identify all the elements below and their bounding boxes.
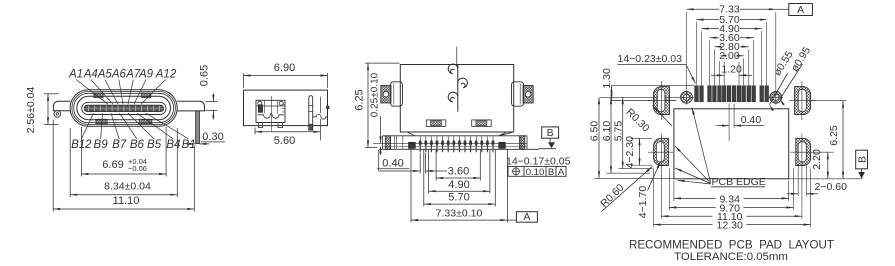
svg-text:0.10: 0.10 [526, 167, 545, 178]
hole centre reference line [600, 96, 680, 98]
datum B flag view3 [542, 127, 559, 138]
view 1: receptacle front view - outer shell stadium [70, 90, 177, 127]
left hook tip [54, 111, 61, 118]
datum A flag view3 [507, 219, 516, 221]
dimension 0.40 centre pads view4 [728, 104, 730, 142]
bottom dimension 11.10 [660, 172, 662, 219]
shell foot pad left (dark) [409, 142, 416, 148]
svg-text:2.20: 2.20 [811, 149, 823, 170]
svg-text:2.00: 2.00 [719, 50, 740, 62]
dimple right (hatched) [472, 120, 492, 127]
right solder hook arm [177, 101, 205, 111]
svg-text:2.56±0.04: 2.56±0.04 [25, 87, 37, 134]
left weld hatch [381, 85, 391, 103]
svg-text:5.70: 5.70 [448, 192, 469, 204]
row of 14 SMT leads with tails [419, 136, 421, 141]
svg-text:11.10: 11.10 [113, 195, 140, 207]
svg-text:1.20: 1.20 [721, 63, 742, 75]
fastening pad centre reference line [611, 100, 676, 102]
svg-text:1.30: 1.30 [601, 68, 613, 89]
contact ticks on tongue [88, 106, 90, 112]
svg-text:TOLERANCE:0.05mm: TOLERANCE:0.05mm [674, 251, 788, 263]
svg-text:A4: A4 [83, 69, 98, 81]
svg-text:0.30: 0.30 [202, 131, 223, 143]
PCB edge cutout rectangle [674, 109, 789, 179]
svg-text:B4: B4 [166, 139, 180, 151]
dimension 1.20 [723, 62, 725, 85]
side clip outline [256, 100, 285, 122]
right dimension 2.20 [827, 152, 829, 179]
band end verticals left [382, 136, 384, 150]
dimension 6.25 (height) [365, 62, 400, 64]
fastening pad lower-right [796, 138, 811, 165]
dimension 0.65 (hook tube height) [206, 101, 218, 103]
svg-text:B6: B6 [130, 139, 145, 151]
through hole right (Ø0.95/Ø0.55) [770, 91, 782, 103]
dimension 7.33±0.10 view3 [410, 150, 412, 223]
shell foot pad right (dark) [499, 142, 506, 148]
bottom dimension 9.70 [668, 169, 670, 211]
right weld bracket plate [512, 82, 524, 106]
svg-text:7.33±0.10: 7.33±0.10 [436, 207, 483, 219]
svg-text:A12: A12 [155, 69, 177, 81]
pad row top reference line [611, 85, 694, 87]
view 2: side view body rectangle [244, 90, 328, 126]
stacked dimension 7.33 with extension to datum A [686, 12, 688, 90]
svg-text:B7: B7 [112, 139, 127, 151]
bottom dimension 12.30 [653, 169, 655, 228]
left vertical dimension 5.75 [619, 168, 653, 170]
svg-text:4−2.30: 4−2.30 [624, 136, 636, 169]
fastening pad upper-right [795, 87, 811, 115]
seam interlock curl 2 (right) [458, 78, 468, 88]
datum B flag view4 [856, 150, 868, 169]
shell seam (center split line) [457, 65, 459, 112]
base plate trapezoid [400, 132, 513, 136]
svg-text:RECOMMENDED PCB PAD LAYOUT: RECOMMENDED PCB PAD LAYOUT [629, 239, 834, 252]
leader lines from B labels to contacts [81, 113, 93, 139]
pin strip solder end [309, 124, 313, 130]
cavity opening [77, 96, 171, 119]
svg-text:−0.06: −0.06 [128, 164, 147, 173]
left vertical dimension 6.10 [607, 172, 651, 174]
latch bump top-right (hatched) [142, 93, 151, 98]
left weld bracket plate [391, 82, 403, 106]
tongue center line [85, 107, 164, 109]
dimension 1.30 [611, 86, 613, 101]
clip spring wave [258, 113, 285, 118]
latch bump bottom-right (hatched) [140, 119, 152, 124]
svg-text:14−0.23±0.03: 14−0.23±0.03 [618, 53, 683, 65]
dimple left (hatched) [426, 120, 446, 127]
svg-text:12.30: 12.30 [717, 220, 743, 232]
clip feet [259, 123, 263, 128]
svg-text:PCB EDGE: PCB EDGE [712, 176, 766, 188]
bottom edge extension line [789, 178, 863, 180]
svg-text:6.10: 6.10 [601, 121, 613, 142]
svg-text:2−0.60: 2−0.60 [815, 181, 848, 193]
svg-text:6.90: 6.90 [274, 62, 295, 74]
svg-text:0.40: 0.40 [741, 114, 762, 126]
svg-text:4−1.70: 4−1.70 [637, 186, 649, 219]
stacked dimension 5.70 [696, 22, 698, 85]
pad height dimension 4-2.30 [631, 137, 653, 139]
svg-text:3.60: 3.60 [448, 166, 469, 178]
svg-text:B: B [548, 167, 554, 178]
left vertical dimension 6.50 [595, 177, 674, 179]
right weld hatch [523, 85, 533, 103]
through hole left (Ø0.95/Ø0.55) [681, 91, 693, 103]
fastening pad lower-left [654, 138, 669, 165]
position tolerance frame [508, 166, 566, 176]
svg-text:6.50: 6.50 [589, 121, 601, 142]
dimension 5.60 [254, 128, 256, 135]
svg-text:0.40: 0.40 [382, 158, 403, 170]
lead band top line [383, 135, 528, 137]
dimension 11.10 (overall width) [52, 120, 54, 212]
slot width dimension 2-0.60 [797, 164, 799, 197]
dimension 4.90 view3 [428, 150, 430, 194]
dimension 3.60 view3 [435, 150, 437, 181]
clip top rail line [256, 105, 285, 107]
svg-text:14−0.17±0.05: 14−0.17±0.05 [506, 156, 571, 168]
dimension 5.70 view3 [423, 150, 425, 207]
svg-text:8.34±0.04: 8.34±0.04 [104, 181, 151, 193]
svg-text:0.65: 0.65 [199, 65, 211, 86]
svg-text:A: A [523, 211, 530, 223]
svg-text:A: A [797, 4, 804, 16]
weld nub on body edge [327, 106, 330, 109]
right dimension 6.25 [811, 100, 847, 102]
clip base rail [256, 122, 285, 124]
break squiggle [313, 114, 328, 119]
lead band mid line [383, 146, 528, 148]
stacked dimension 2.00 [719, 58, 721, 85]
side clip centerline [271, 96, 273, 131]
fastening pad upper-left [653, 87, 669, 115]
svg-text:A6: A6 [111, 69, 127, 81]
seating plane line [379, 148, 539, 150]
left solder hook arm [53, 101, 70, 111]
stacked dimension 3.60 [709, 40, 711, 85]
side pin strip [309, 96, 313, 130]
dimension 0.40 (lead pitch) view3 [419, 153, 421, 174]
clip contact bar (dark) [258, 105, 262, 113]
svg-text:A: A [558, 167, 565, 178]
latch bump bottom-left (hatched) [96, 119, 107, 124]
leader lines from A labels to contacts [76, 80, 108, 105]
svg-text:6.25: 6.25 [828, 125, 840, 146]
dimension 6.90 (body width) [243, 73, 245, 88]
svg-text:0.25±0.10: 0.25±0.10 [370, 72, 381, 117]
svg-text:B9: B9 [94, 139, 109, 151]
clip ear right [279, 101, 283, 105]
seam interlock curl 1 (left) [448, 64, 458, 74]
dimension 8.34±0.04 (shell width) [69, 128, 71, 197]
bottom dimension 9.34 [673, 181, 675, 202]
clip ear left [258, 101, 262, 105]
hole diameter callouts Ø0.55 Ø0.95 [770, 74, 788, 105]
svg-text:B: B [547, 127, 554, 139]
stacked dimension 4.90 [701, 31, 703, 85]
pin axis extension line [320, 97, 322, 113]
mid reference line [373, 142, 527, 144]
shell inner wall line 2 [74, 93, 174, 122]
signal pad row (14 pads) [695, 86, 699, 102]
svg-text:A9: A9 [138, 69, 154, 81]
stacked dimension 2.80 [713, 49, 715, 85]
svg-text:6.69: 6.69 [102, 159, 123, 171]
view 3 body rectangle [400, 65, 513, 133]
shell inner wall line 1 [72, 92, 175, 125]
dimension 2.56±0.04 (shell height) [44, 93, 59, 95]
tongue contact strip [84, 105, 163, 111]
view 3: vertical centerline [456, 47, 458, 67]
svg-text:B: B [856, 156, 868, 163]
svg-text:5.75: 5.75 [613, 121, 625, 142]
band end verticals right [520, 136, 522, 150]
tongue outline [82, 102, 166, 114]
svg-text:5.60: 5.60 [274, 135, 295, 147]
svg-text:A5: A5 [97, 69, 113, 81]
side foot hatch right [520, 136, 525, 150]
seam interlock curl 3 (left) [448, 92, 458, 102]
svg-text:4.90: 4.90 [448, 179, 469, 191]
latch bump top-left (hatched) [94, 93, 103, 98]
svg-text:B5: B5 [147, 139, 162, 151]
dimension 6.69 +0.04/-0.06 (tongue width) [80, 127, 82, 177]
svg-text:6.25: 6.25 [354, 89, 366, 110]
side foot hatch left [385, 136, 390, 150]
svg-text:A1: A1 [68, 69, 83, 81]
right hook leg strip [196, 111, 200, 144]
